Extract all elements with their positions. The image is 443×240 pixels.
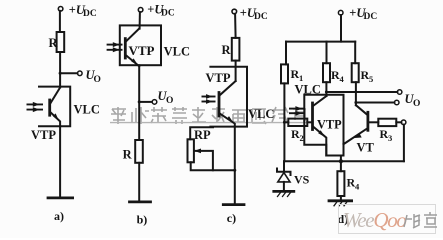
svg-text:WeeQoo: WeeQoo <box>343 208 406 232</box>
svg-text:DC: DC <box>83 9 97 19</box>
svg-text:DC: DC <box>161 9 175 19</box>
potentiometer RP box <box>188 139 194 162</box>
label R1 <box>291 67 304 83</box>
light arrows (c) <box>202 94 216 104</box>
phototransistor box VLC (a) <box>39 87 70 127</box>
emitter arrowhead (a) <box>53 113 59 121</box>
ground (VS) <box>274 190 294 193</box>
watermark strikethrough line <box>110 122 306 124</box>
svg-text:a): a) <box>54 209 64 223</box>
svg-text:VLC: VLC <box>74 103 100 117</box>
resistor R (a) <box>57 32 65 52</box>
wire zener top <box>283 161 285 172</box>
light arrows (a) <box>27 102 44 112</box>
label +UDC (d) <box>349 6 377 22</box>
wire R4 drop <box>326 42 328 64</box>
wire down <box>138 65 140 140</box>
svg-text:VS: VS <box>294 173 310 187</box>
resistor R4 <box>323 63 330 82</box>
svg-text:R: R <box>222 43 232 57</box>
svg-text:VTP: VTP <box>317 117 342 131</box>
collector VTP <box>314 96 327 106</box>
zener VS triangle <box>278 173 290 182</box>
wire <box>235 61 237 81</box>
bottom rail <box>284 160 404 162</box>
phototransistor box VLC (c) <box>210 67 247 127</box>
watermark weiku glyphs <box>404 212 437 228</box>
emitter arrowhead (b) <box>131 58 138 65</box>
svg-text:R: R <box>49 36 59 50</box>
resistor R (c) <box>232 38 240 61</box>
emitter arrowhead (c) <box>227 116 234 123</box>
label UO (d) <box>405 92 421 109</box>
RP bottom wire <box>191 162 235 170</box>
transistor VTP base bar (c) <box>218 93 221 117</box>
svg-text:DC: DC <box>364 12 378 22</box>
wire drop to rail <box>340 156 342 162</box>
svg-text:VTP: VTP <box>129 43 155 58</box>
svg-text:3: 3 <box>388 133 392 143</box>
junction d line2 <box>354 101 357 104</box>
wire R2 left lead <box>284 121 288 123</box>
label +UDC (b) <box>147 3 175 19</box>
svg-text:b): b) <box>137 213 148 227</box>
wire R5 drop <box>354 42 356 64</box>
collector <box>51 88 60 103</box>
collector <box>220 81 235 95</box>
ground (a) <box>48 196 73 199</box>
wire R1 bottom down to rail <box>283 83 285 161</box>
svg-text:VT: VT <box>357 140 375 154</box>
svg-text:VTP: VTP <box>206 71 231 85</box>
emitter <box>220 114 235 127</box>
wire R4 bottom to collector <box>325 82 327 96</box>
ground hatches (VS) <box>278 193 281 197</box>
label +UDC (a) <box>69 3 97 19</box>
emitter arrowhead VTP (d) <box>318 130 325 137</box>
wire <box>340 15 342 42</box>
junction dot <box>339 159 343 163</box>
resistor R3 <box>378 119 396 126</box>
wire R4b bottom <box>340 196 342 201</box>
wire to ground <box>138 163 140 201</box>
terminal +UDC (a) <box>58 7 63 12</box>
terminal +UDC (b) <box>138 8 143 13</box>
base lead VT <box>369 121 378 123</box>
label UO (a) <box>86 68 101 85</box>
label R4 bottom <box>347 176 361 192</box>
svg-text:O: O <box>166 96 173 106</box>
svg-text:1: 1 <box>299 73 303 83</box>
collector <box>126 29 139 41</box>
ground (c) <box>223 203 244 206</box>
svg-text:VTP: VTP <box>31 128 56 142</box>
wire <box>59 11 61 32</box>
output line 2 <box>356 102 395 104</box>
wire to ground <box>234 127 236 205</box>
terminal UO2 <box>394 100 399 105</box>
svg-text:VLC: VLC <box>248 107 274 121</box>
wire to ground <box>59 126 61 196</box>
wire output tap <box>139 101 151 103</box>
emitter VTP <box>314 127 327 156</box>
wire R5 bottom down <box>355 82 357 105</box>
watermark band (gray CJK-like glyph blocks) <box>111 107 306 124</box>
wire from R3 terminal down <box>403 125 405 162</box>
RP wiper arrowhead <box>194 149 201 154</box>
resistor R (b) <box>135 140 143 163</box>
wire R3 right lead <box>396 121 401 123</box>
top rail <box>286 41 355 43</box>
label +UDC (c) <box>240 6 268 22</box>
wire zener bottom <box>283 182 285 191</box>
svg-text:R: R <box>123 148 133 162</box>
ground (b) <box>130 200 151 203</box>
svg-text:VLC: VLC <box>295 83 321 97</box>
svg-text:VLC: VLC <box>164 44 190 58</box>
label UO (b) <box>158 89 174 106</box>
collector VT <box>356 105 367 115</box>
junction a tap <box>59 72 62 75</box>
svg-text:O: O <box>413 99 420 109</box>
junction b tap <box>138 100 141 103</box>
transistor VTP base bar (a) <box>48 100 51 115</box>
terminal +UDC (d) <box>338 10 343 15</box>
wire R1 drop <box>285 42 287 65</box>
light arrows (b) <box>107 42 123 52</box>
phototransistor box VLC (d) <box>304 95 343 156</box>
svg-text:c): c) <box>227 211 236 225</box>
terminal UO (b) <box>152 100 157 105</box>
resistor R5 <box>352 63 359 82</box>
ground hatches (d) <box>334 202 337 206</box>
junction d R2 <box>283 121 286 124</box>
emitter arrowhead VT (d) <box>353 134 362 138</box>
zener VS bar <box>277 169 291 176</box>
svg-text:2: 2 <box>300 133 304 143</box>
ground (d) <box>329 199 352 202</box>
label R4 <box>331 68 345 84</box>
watermark WeeQoo box <box>339 205 436 234</box>
terminal UO1 <box>397 90 402 95</box>
wire R2 right lead <box>307 121 311 123</box>
junction c RP bottom <box>233 169 236 172</box>
transistor VT base bar <box>366 112 369 130</box>
svg-text:5: 5 <box>369 74 373 84</box>
wire <box>139 12 141 29</box>
transistor VTP base bar (d) <box>311 103 314 130</box>
wire <box>59 52 61 88</box>
svg-text:DC: DC <box>254 12 268 22</box>
label R5 <box>361 68 374 84</box>
label R2 <box>291 127 304 143</box>
wire R4b top <box>340 161 342 171</box>
emitter <box>51 113 60 127</box>
light arrows (d) <box>289 106 305 116</box>
resistor R1 <box>281 64 288 83</box>
transistor VTP base bar (b) <box>124 39 127 58</box>
resistor R4 bottom <box>337 171 344 196</box>
terminal UO (a) <box>78 71 83 76</box>
wire output tap <box>60 72 77 74</box>
phototransistor box VLC (b) <box>120 25 161 65</box>
terminal R3 right <box>401 120 406 125</box>
resistor R2 <box>288 119 307 126</box>
emitter <box>126 56 139 67</box>
svg-text:RP: RP <box>194 128 211 142</box>
base lead wire to RP <box>190 127 213 139</box>
emitter VT <box>344 129 368 145</box>
wire <box>234 14 237 38</box>
RP wiper wire <box>195 151 213 170</box>
label R3 <box>380 127 393 143</box>
output line 1 <box>326 91 397 93</box>
svg-text:O: O <box>94 75 101 85</box>
junction d line1 <box>325 91 328 94</box>
terminal +UDC (c) <box>232 9 237 14</box>
